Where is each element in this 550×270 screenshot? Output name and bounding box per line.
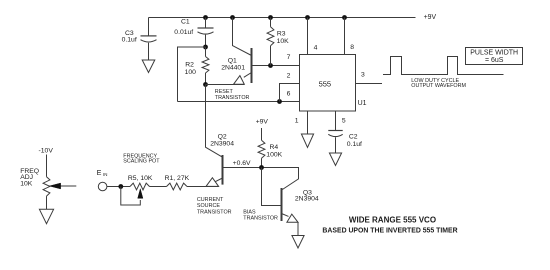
capacitor C1 0.01uf [205,18,207,29]
wire pin 6 line [178,101,300,103]
resistor R1 27K [167,183,188,190]
svg-text:10K: 10K [20,180,33,187]
wire +0.6V node line [223,168,299,190]
svg-text:WIDE RANGE 555 VCO: WIDE RANGE 555 VCO [349,215,436,224]
resistor R2 100 [205,47,207,57]
node pin7 / Q1 base / R3 bottom [268,63,273,68]
waveform at pin 3 output [383,57,504,75]
pin 3 [356,83,383,85]
svg-text:= 6uS: = 6uS [485,57,504,64]
node rail/R3 [268,15,273,20]
svg-text:R1, 27K: R1, 27K [165,175,190,182]
transistor Q1 2N4401 [251,48,253,83]
svg-text:E: E [97,168,102,177]
IC U1 555 timer box [300,55,356,112]
wire feedback loop C1-bottom to pin6 line [178,47,206,102]
svg-text:2N3904: 2N3904 [295,196,319,203]
svg-text:8: 8 [350,44,354,51]
svg-text:TRANSISTOR: TRANSISTOR [243,215,278,221]
svg-text:U1: U1 [358,100,367,107]
svg-text:+9V: +9V [256,118,269,125]
svg-text:TRANSISTOR: TRANSISTOR [215,95,250,101]
svg-text:0.1uf: 0.1uf [122,37,137,44]
svg-text:5: 5 [342,118,346,125]
svg-text:-10V: -10V [39,148,54,155]
svg-text:555: 555 [319,79,332,88]
wire pin 2 stub [280,84,300,102]
wire E_IN to R5 [107,186,130,188]
pin 1 [307,111,309,134]
svg-text:TRANSISTOR: TRANSISTOR [197,210,232,216]
svg-text:100K: 100K [266,152,282,159]
svg-text:R2: R2 [185,62,194,69]
svg-text:7: 7 [287,54,291,61]
svg-text:RESET: RESET [215,89,234,95]
transistor Q3 2N3904 [281,188,283,221]
svg-text:IN: IN [103,172,107,177]
node R2 bottom / Q1 emitter / Q2 collector [203,82,208,87]
svg-text:Q1: Q1 [228,57,237,64]
svg-text:+9V: +9V [424,14,437,21]
callout box PULSE WIDTH = 6uS [466,48,523,65]
ground (Q3) [292,236,304,249]
node R5 wiper loop [118,184,123,189]
svg-text:SOURCE: SOURCE [197,203,220,209]
svg-text:R5, 10K: R5, 10K [128,175,153,182]
node C1 bottom / R2 top [203,45,208,50]
node R4 / Q2 base / Q3 [259,165,264,170]
node pin2/pin6 junction [277,99,282,104]
svg-text:CURRENT: CURRENT [197,197,224,203]
ground (C2) [329,153,341,166]
svg-text:C1: C1 [181,19,190,26]
svg-text:6: 6 [287,91,291,98]
svg-text:2: 2 [287,72,291,79]
svg-text:R4: R4 [270,144,279,151]
ground (FREQ ADJ pot) [39,209,53,223]
pin 5 / capacitor C2 0.1uf [335,111,337,131]
svg-text:1: 1 [295,118,299,125]
svg-text:R3: R3 [277,30,286,37]
pin 8 [344,18,346,55]
node rail/pin8 [342,15,347,20]
svg-text:+0.6V: +0.6V [233,160,251,167]
svg-text:0.1uf: 0.1uf [347,141,362,148]
svg-text:2N3904: 2N3904 [210,140,234,147]
potentiometer R5 10K frequency scaling [130,183,150,190]
svg-text:PULSE WIDTH: PULSE WIDTH [470,50,518,57]
capacitor C3 0.1uf [148,18,150,36]
wire +9V top rail [149,17,416,19]
svg-text:BASED UPON THE INVERTED 555 TI: BASED UPON THE INVERTED 555 TIMER [322,227,457,234]
pin 4 [307,18,309,55]
svg-text:0.01uf: 0.01uf [174,29,193,36]
ground (C3) [142,60,155,73]
svg-text:10K: 10K [277,38,290,45]
resistor R3 10K [270,18,272,27]
svg-text:2N4401: 2N4401 [221,64,245,71]
node rail/pin4 [305,15,310,20]
svg-text:C2: C2 [349,133,358,140]
ground (pin 1) [301,134,313,147]
svg-text:100: 100 [185,69,197,76]
svg-text:4: 4 [314,45,318,52]
svg-text:3: 3 [361,72,365,79]
input terminal E_IN [98,182,107,191]
transistor Q2 2N3904 [222,155,224,185]
node rail/Q1 collector [230,15,235,20]
svg-text:SCALING POT: SCALING POT [123,159,160,165]
node rail/C1 [203,15,208,20]
svg-text:OUTPUT WAVEFORM: OUTPUT WAVEFORM [411,83,466,89]
